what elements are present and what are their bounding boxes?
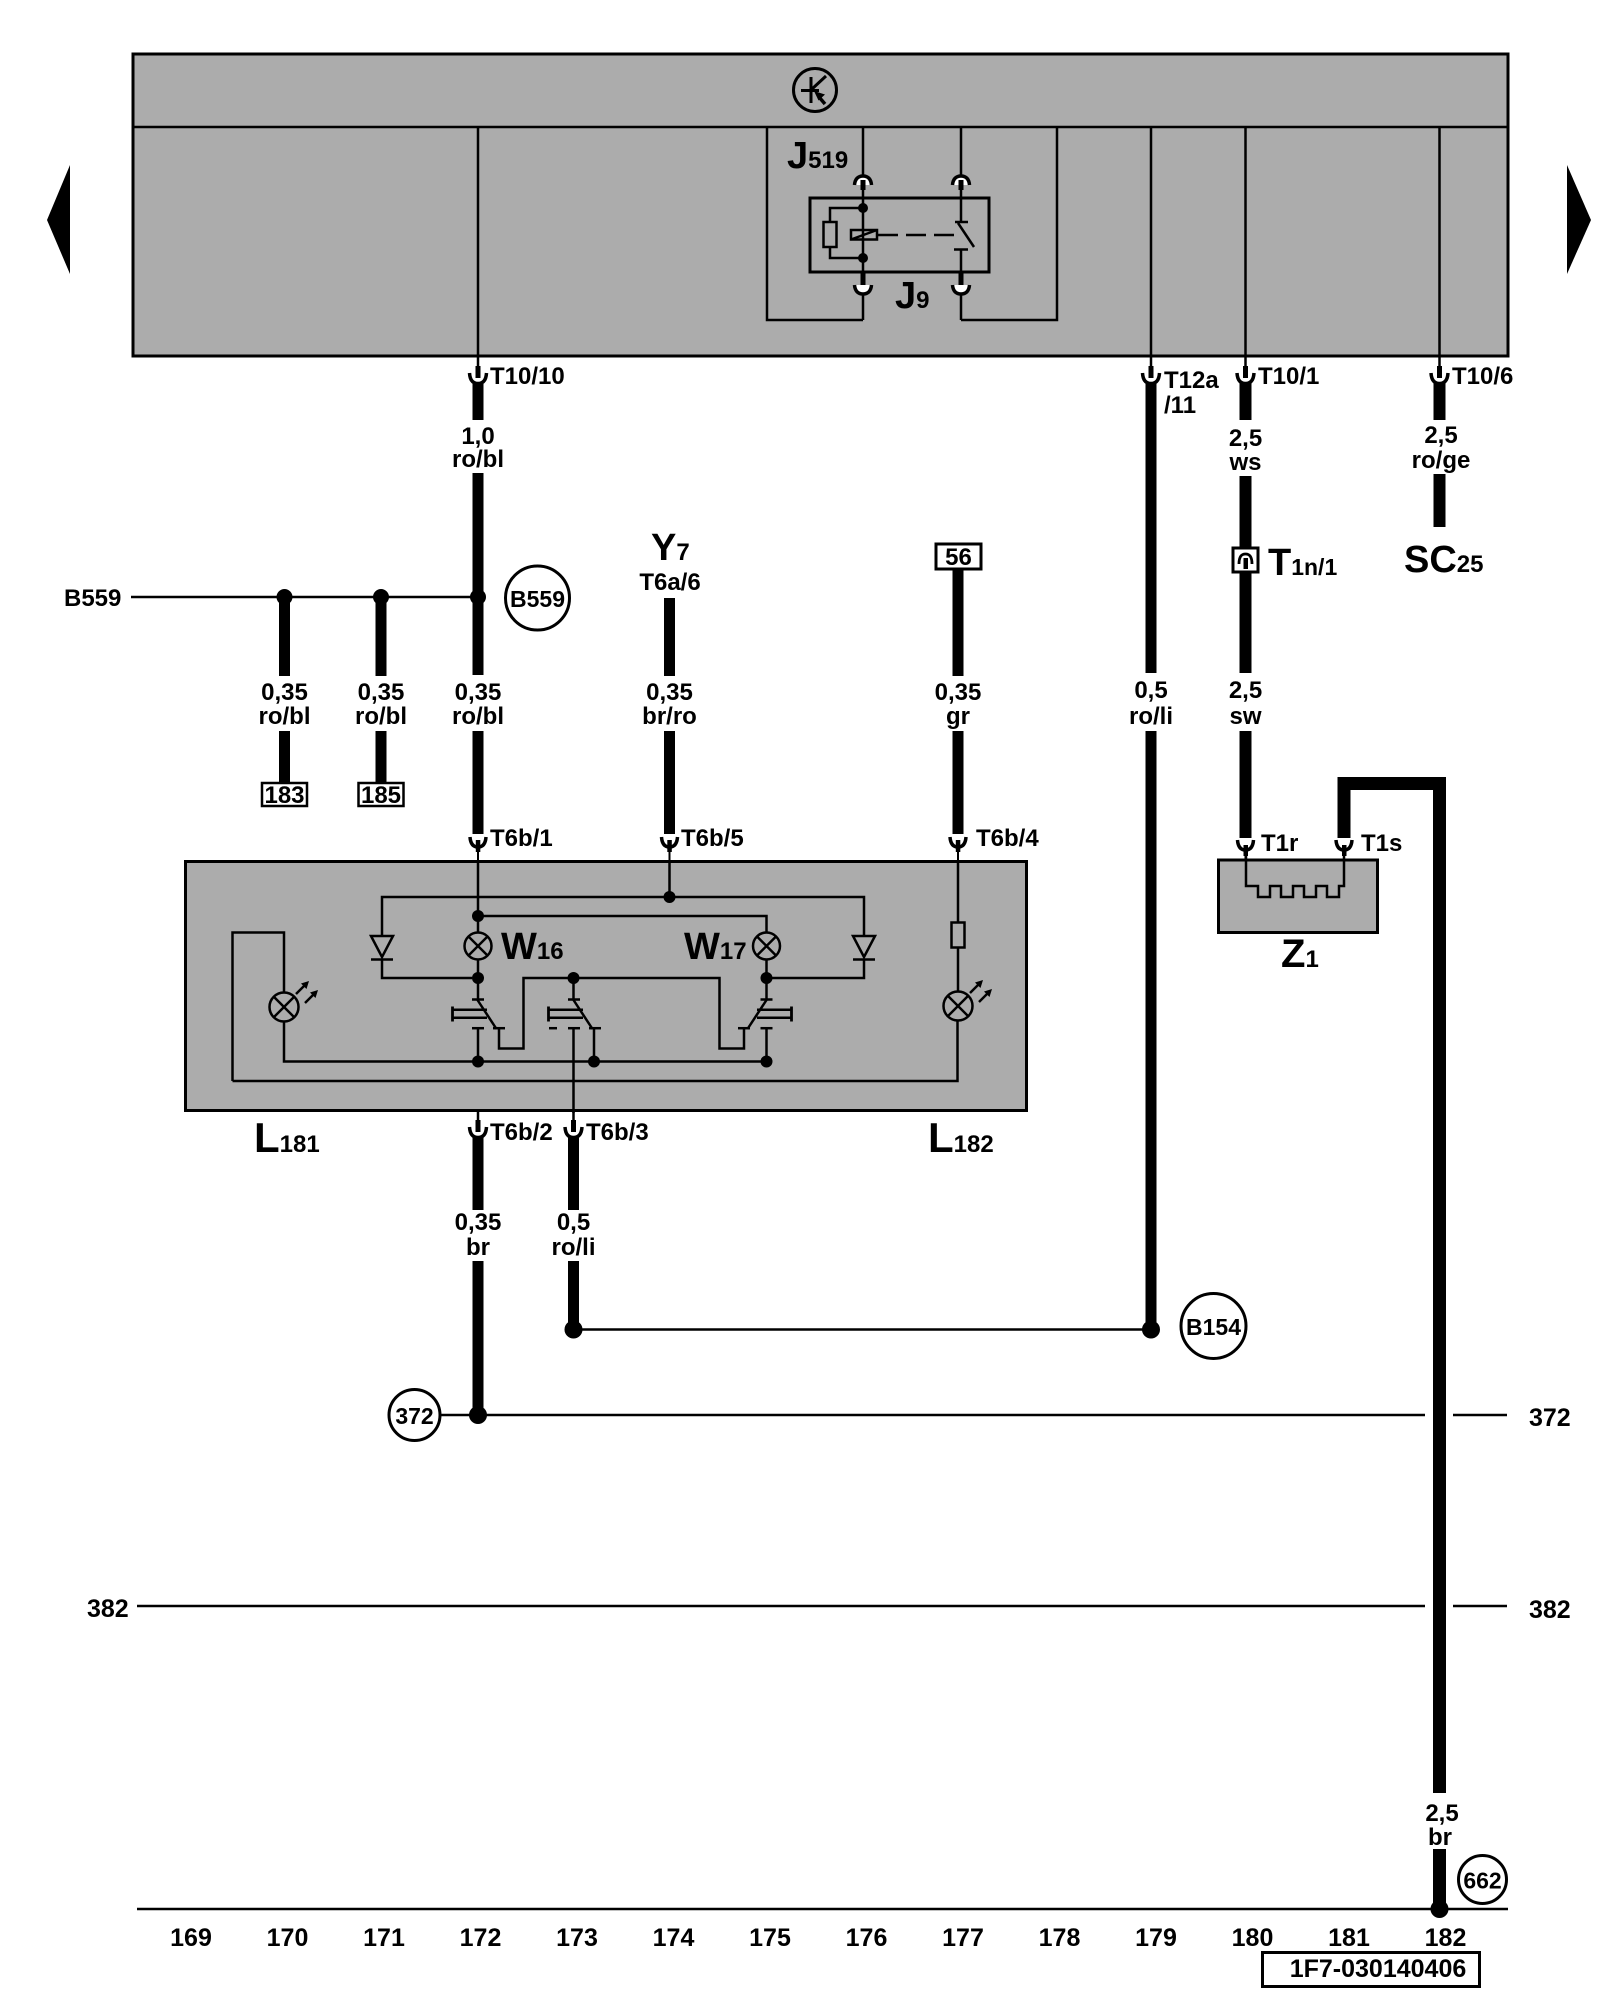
svg-text:T10/10: T10/10 xyxy=(490,363,565,390)
svg-text:181: 181 xyxy=(1328,1924,1370,1952)
wire 0,35 br lower segment xyxy=(473,1261,484,1415)
ground 183 box xyxy=(262,782,307,809)
diagram id box xyxy=(1263,1953,1480,1987)
svg-text:662: 662 xyxy=(1463,1868,1501,1894)
resistor R1 above L182 xyxy=(952,923,965,948)
svg-text:1F7-030140406: 1F7-030140406 xyxy=(1290,1955,1467,1983)
tail lamp unit gray box xyxy=(186,862,1027,1111)
svg-text:br: br xyxy=(1428,1824,1452,1851)
wire line B to lamp W17 xyxy=(478,916,767,934)
wire 0,35 br/ro lower segment xyxy=(664,731,675,834)
svg-text:180: 180 xyxy=(1232,1924,1274,1952)
L181 feed hook wire xyxy=(233,933,285,1082)
label 0,5 ro/li xyxy=(1129,677,1173,730)
junction dot below W16 xyxy=(472,972,484,984)
svg-text:ro/ge: ro/ge xyxy=(1412,447,1471,474)
label 2,5 ro/ge xyxy=(1412,422,1471,474)
wire track 372 xyxy=(440,1414,1425,1417)
svg-text:T1s: T1s xyxy=(1361,830,1402,857)
lamp L182 xyxy=(944,980,993,1021)
svg-text:0,35: 0,35 xyxy=(935,679,982,706)
svg-text:182: 182 xyxy=(1425,1924,1467,1952)
wire T6b/5 entry xyxy=(668,861,671,897)
lamp L181 xyxy=(270,981,319,1022)
relay J9 coil pin wire xyxy=(862,127,865,177)
svg-text:/11: /11 xyxy=(1164,392,1196,419)
svg-text:B559: B559 xyxy=(510,586,565,612)
junction dot 662 on ground line xyxy=(1431,1900,1449,1918)
svg-text:gr: gr xyxy=(946,703,970,730)
svg-text:T6b/3: T6b/3 xyxy=(586,1119,649,1146)
pin T6b/2 exit connector xyxy=(470,1112,487,1138)
wire 2,5 ws to T1n xyxy=(1240,476,1252,549)
junction dot end of T6b/3 wire xyxy=(565,1321,583,1339)
wire 0,35 br/ro upper segment xyxy=(664,598,675,676)
svg-text:T6b/4: T6b/4 xyxy=(976,825,1039,852)
pin T10/10 exit connector xyxy=(470,356,487,384)
pin T10/1 exit connector xyxy=(1237,356,1254,384)
bottom bus wire (line I) xyxy=(233,1021,958,1082)
label 1,0 ro/bl xyxy=(452,423,504,473)
terminal 56 box xyxy=(936,544,981,571)
connector socket top of relay switch xyxy=(953,176,970,198)
svg-text:T10/6: T10/6 xyxy=(1452,363,1513,390)
svg-text:169: 169 xyxy=(170,1924,212,1952)
lamp W16 xyxy=(465,933,492,960)
svg-text:179: 179 xyxy=(1135,1924,1177,1952)
svg-text:sw: sw xyxy=(1229,703,1261,730)
connector socket bottom of relay switch xyxy=(953,272,970,320)
L181 return wire (line H) xyxy=(284,1022,767,1062)
wire 2,5 br lower segment xyxy=(1433,1849,1446,1909)
wire inside band to T10/6 xyxy=(1438,127,1441,356)
junction dot relay bottom xyxy=(858,253,868,263)
node circle B559 xyxy=(506,566,570,630)
relay J9 box xyxy=(810,198,989,272)
svg-text:B154: B154 xyxy=(1186,1314,1241,1340)
wire track 372 right stub xyxy=(1453,1414,1507,1417)
relay actuation dashed line xyxy=(878,234,961,237)
junction dot B154 xyxy=(1142,1321,1160,1339)
junction dot 183 branch xyxy=(277,589,293,605)
svg-text:2,5: 2,5 xyxy=(1425,1800,1458,1827)
node circle B154 xyxy=(1181,1294,1246,1359)
svg-text:171: 171 xyxy=(363,1924,405,1952)
J519 internal bracket left xyxy=(767,127,863,320)
relay coil vertical wire xyxy=(862,198,865,272)
junction dot 372 at br wire xyxy=(469,1406,487,1424)
junction dot 185 branch xyxy=(373,589,389,605)
wire to 183 lower xyxy=(279,731,290,784)
svg-text:0,35: 0,35 xyxy=(455,679,502,706)
junction dot Q2 emitter on line H xyxy=(588,1056,600,1068)
svg-text:382: 382 xyxy=(87,1595,129,1623)
svg-text:ro/bl: ro/bl xyxy=(452,703,504,730)
svg-text:382: 382 xyxy=(1529,1596,1571,1624)
wire inside band to T10/1 xyxy=(1244,127,1247,356)
relay coil symbol xyxy=(851,230,877,240)
wire 2,5 ro/ge lower segment xyxy=(1434,474,1446,527)
svg-text:T6b/5: T6b/5 xyxy=(681,825,744,852)
inline connector T1n/1 xyxy=(1233,548,1258,572)
svg-text:175: 175 xyxy=(749,1924,791,1952)
connector T6b/5 xyxy=(662,837,678,861)
svg-text:372: 372 xyxy=(395,1403,433,1429)
svg-text:T10/1: T10/1 xyxy=(1258,363,1319,390)
svg-text:177: 177 xyxy=(942,1924,984,1952)
svg-text:ro/li: ro/li xyxy=(1129,703,1173,730)
svg-text:176: 176 xyxy=(846,1924,888,1952)
wire 0,35 gr lower segment xyxy=(953,731,964,834)
label 2,5 br xyxy=(1425,1800,1458,1851)
connector socket top of relay coil xyxy=(855,176,872,198)
junction dot Q1 emitter on line H xyxy=(472,1056,484,1068)
wire to 185 lower xyxy=(376,731,387,784)
junction dot T6b/5 on line A xyxy=(664,891,676,903)
top distribution wire (line A) xyxy=(382,897,864,935)
svg-text:T6b/1: T6b/1 xyxy=(490,825,553,852)
heavy wire from Z1 T1s up and right xyxy=(1344,784,1440,1794)
transistor Q1 xyxy=(453,978,574,1062)
wire track 382 xyxy=(137,1605,1425,1608)
label 2,5 sw xyxy=(1229,677,1262,730)
wire 2,5 sw upper segment xyxy=(1240,572,1252,673)
svg-text:0,35: 0,35 xyxy=(646,679,693,706)
connector T6b/4 xyxy=(950,837,966,861)
node circle 372 xyxy=(389,1390,440,1441)
wire 0,35 ro/bl to 183 upper xyxy=(279,597,290,676)
junction dot line B at W16 wire xyxy=(472,910,484,922)
relay J9 switch pin wire xyxy=(960,127,963,177)
wire W17 to transistor Q3 xyxy=(765,960,768,1001)
wire T6b/1 entry to lamp W16 xyxy=(477,861,480,934)
svg-text:T12a: T12a xyxy=(1164,367,1219,394)
label 0,35 ro/bl (T6b/1) xyxy=(452,679,504,730)
wire 2,5 ws upper segment xyxy=(1240,382,1252,420)
pin T12a/11 exit connector xyxy=(1143,356,1160,384)
wire inside band to T12a/11 xyxy=(1150,127,1153,356)
relay resistor xyxy=(824,222,837,247)
terminal K symbol in circle xyxy=(794,69,837,112)
wire 0,35 ro/bl to 185 upper xyxy=(376,597,387,676)
wire 0,35 gr upper segment xyxy=(953,569,964,676)
wire 0,35 br upper segment xyxy=(473,1136,484,1210)
wire 2,5 ro/ge upper segment xyxy=(1434,382,1446,420)
wire 2,5 sw lower segment xyxy=(1240,731,1252,838)
svg-text:0,35: 0,35 xyxy=(261,679,308,706)
control unit J519 carrier gray band xyxy=(133,54,1508,356)
svg-text:2,5: 2,5 xyxy=(1229,677,1262,704)
wire W16 to transistor Q1 xyxy=(477,960,480,1001)
svg-text:ro/bl: ro/bl xyxy=(355,703,407,730)
svg-text:172: 172 xyxy=(460,1924,502,1952)
svg-text:170: 170 xyxy=(267,1924,309,1952)
wire 0,5 ro/li upper segment xyxy=(1146,382,1157,673)
wire 0,35 ro/bl lower segment xyxy=(473,731,484,834)
svg-text:T6b/2: T6b/2 xyxy=(490,1119,553,1146)
Z1 heating element comb xyxy=(1246,854,1344,897)
label 0,35 gr xyxy=(935,679,982,730)
connector socket bottom of relay coil xyxy=(855,272,872,320)
transistor Q2 xyxy=(549,1000,602,1114)
svg-text:br: br xyxy=(466,1234,490,1261)
svg-text:B559: B559 xyxy=(64,585,121,612)
ground 185 box xyxy=(359,782,404,809)
label 0,35 ro/bl (183) xyxy=(259,679,311,730)
wire 1,0 ro/bl upper segment xyxy=(473,382,484,420)
junction dot Q2 top xyxy=(568,972,580,984)
junction dot relay top xyxy=(858,203,868,213)
node wire to B154 xyxy=(574,1328,1152,1331)
junction dot Q3 emitter on line H xyxy=(761,1056,773,1068)
svg-text:0,35: 0,35 xyxy=(358,679,405,706)
junction dot B559 on ro/bl wire xyxy=(470,589,486,605)
relay switch contact xyxy=(954,198,974,272)
wire T6b/4 entry xyxy=(957,861,960,923)
wire ro/bl middle segment xyxy=(473,473,484,675)
svg-text:178: 178 xyxy=(1039,1924,1081,1952)
wire inside band to T10/10 xyxy=(477,127,480,356)
left page arrow xyxy=(47,165,70,274)
label 0,35 br/ro xyxy=(642,679,697,730)
ground rail line xyxy=(137,1908,1508,1911)
relay parallel resistor branch xyxy=(830,208,863,258)
node B559 horizontal wire xyxy=(131,596,478,599)
svg-text:ro/li: ro/li xyxy=(551,1234,595,1261)
J519 internal bracket right xyxy=(961,127,1057,320)
svg-text:372: 372 xyxy=(1529,1404,1571,1432)
label 2,5 ws xyxy=(1228,425,1262,476)
svg-text:0,5: 0,5 xyxy=(557,1209,590,1236)
svg-text:183: 183 xyxy=(264,782,304,809)
junction dot below W17 xyxy=(761,972,773,984)
pin T10/6 exit connector xyxy=(1431,356,1448,384)
svg-text:T6a/6: T6a/6 xyxy=(639,569,700,596)
right page arrow xyxy=(1567,165,1591,274)
wire Q2 base from line G xyxy=(572,978,575,1000)
transistor Q3 (mirrored) xyxy=(574,978,792,1062)
svg-text:ro/bl: ro/bl xyxy=(259,703,311,730)
diode D2 xyxy=(772,936,875,978)
pin T6b/3 exit connector xyxy=(565,1112,582,1138)
lamp W17 xyxy=(753,933,780,960)
label 0,5 ro/li (T6b/3) xyxy=(551,1209,595,1261)
svg-text:ws: ws xyxy=(1228,449,1261,476)
wire 0,5 ro/li lower segment xyxy=(1146,731,1157,1326)
svg-text:2,5: 2,5 xyxy=(1229,425,1262,452)
svg-text:0,35: 0,35 xyxy=(455,1209,502,1236)
svg-text:56: 56 xyxy=(945,544,972,571)
label 0,35 br xyxy=(455,1209,502,1261)
label 0,35 ro/bl (185) xyxy=(355,679,407,730)
wire track 382 right stub xyxy=(1453,1605,1507,1608)
svg-text:ro/bl: ro/bl xyxy=(452,446,504,473)
diode D1 xyxy=(371,936,472,978)
svg-text:T1r: T1r xyxy=(1261,830,1298,857)
label T12a/11 xyxy=(1164,367,1219,419)
node circle 662 xyxy=(1459,1856,1507,1904)
wire resistor to lamp L182 xyxy=(957,948,960,993)
wire 0,5 ro/li upper segment (T6b/3) xyxy=(568,1136,579,1210)
connection plate Z1 gray box xyxy=(1219,860,1378,933)
svg-text:0,5: 0,5 xyxy=(1134,677,1167,704)
svg-text:br/ro: br/ro xyxy=(642,703,697,730)
connector T1r xyxy=(1238,840,1254,861)
svg-text:174: 174 xyxy=(653,1924,695,1952)
svg-text:173: 173 xyxy=(556,1924,598,1952)
wire 0,5 ro/li lower segment (T6b/3) xyxy=(568,1261,579,1326)
svg-text:2,5: 2,5 xyxy=(1424,422,1457,449)
svg-text:185: 185 xyxy=(361,782,401,809)
connector T6b/1 xyxy=(470,837,486,861)
connector T1s xyxy=(1336,840,1352,861)
